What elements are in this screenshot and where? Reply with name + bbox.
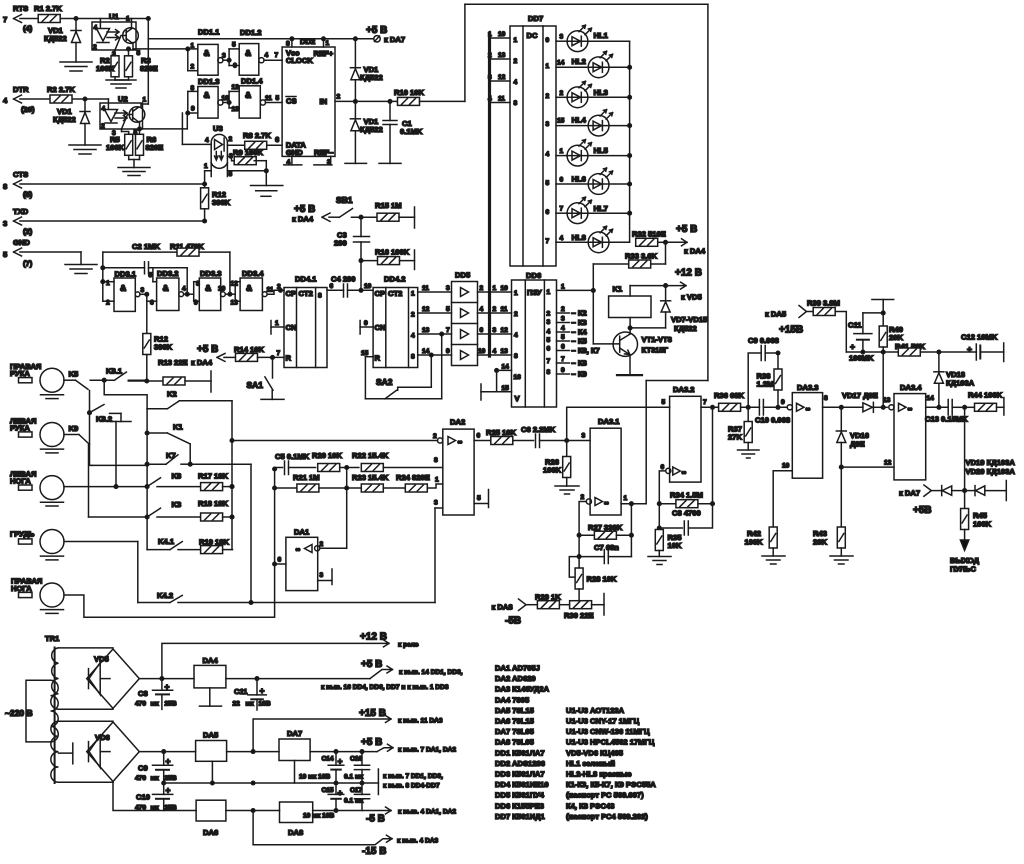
- svg-text:&: &: [120, 283, 126, 293]
- svg-text:4: 4: [514, 332, 518, 339]
- wire +5V logic rail: [226, 659, 463, 691]
- wire sensor5 to DA1 bus: [64, 467, 276, 617]
- svg-text:K2: K2: [167, 390, 177, 399]
- svg-text:DA3.3: DA3.3: [797, 383, 819, 392]
- svg-text:12: 12: [884, 460, 892, 467]
- svg-text:к DA4: к DA4: [292, 215, 314, 224]
- svg-text:к DA4: к DA4: [684, 247, 706, 256]
- resistor R15 1M: [375, 201, 415, 228]
- svg-text:КД103А: КД103А: [946, 379, 975, 388]
- gate DD3.1: [103, 270, 145, 312]
- svg-text:9: 9: [364, 320, 368, 327]
- wire DD2 IN row: [335, 94, 398, 104]
- op-amp DA2: [232, 418, 489, 603]
- ground (R37): [738, 450, 760, 458]
- IC DD2 ADC: [282, 37, 335, 166]
- svg-text:K8.2: K8.2: [96, 415, 112, 424]
- resistor R38 1.2M: [757, 353, 783, 407]
- svg-text:DA3.4: DA3.4: [900, 383, 922, 392]
- connector CTS pin 8: [3, 170, 33, 199]
- svg-text:6: 6: [560, 177, 564, 184]
- svg-text:DD6 К155РЕ3: DD6 К155РЕ3: [495, 801, 544, 810]
- svg-text:∞: ∞: [458, 439, 463, 446]
- svg-text:к DA7: к DA7: [899, 489, 920, 498]
- regulator DA5: [196, 731, 227, 784]
- LED HL1: [556, 25, 630, 51]
- svg-text:R18 18K: R18 18K: [198, 499, 228, 508]
- switch K7: [145, 451, 251, 603]
- svg-text:5: 5: [276, 95, 280, 102]
- svg-text:+5В: +5В: [913, 505, 932, 516]
- svg-text:DA2: DA2: [450, 418, 465, 427]
- svg-text:1: 1: [624, 495, 628, 502]
- optocoupler U3: [204, 124, 233, 178]
- svg-text:15: 15: [502, 385, 510, 392]
- wire 0V mid rail: [162, 769, 443, 795]
- svg-text:TR1: TR1: [45, 634, 60, 643]
- svg-text:DA3 К140УД2А: DA3 К140УД2А: [495, 685, 550, 694]
- svg-text:+: +: [850, 342, 855, 352]
- wire R40/R41 node row: [846, 350, 898, 409]
- svg-text:9: 9: [781, 399, 785, 406]
- resistor R21 1M: [275, 473, 362, 492]
- svg-text:РУКА: РУКА: [10, 424, 30, 433]
- svg-text:R: R: [286, 354, 292, 363]
- svg-text:2: 2: [101, 123, 105, 130]
- svg-text:25В: 25В: [165, 701, 177, 708]
- svg-text:VD19 КД103А: VD19 КД103А: [966, 458, 1016, 467]
- svg-text:DD7: DD7: [528, 14, 543, 23]
- svg-text:R2 2.7K: R2 2.7K: [47, 85, 75, 94]
- node +5V to DA4 (SB1): [292, 204, 330, 224]
- resistor R36 68K: [714, 391, 759, 411]
- gate DD3.4: [225, 269, 284, 310]
- svg-text:3: 3: [141, 287, 145, 294]
- svg-text:R9 100K: R9 100K: [233, 148, 263, 157]
- svg-text:HL2-HL8 красные: HL2-HL8 красные: [566, 770, 632, 779]
- svg-text:5: 5: [547, 337, 551, 344]
- svg-text:РУКА: РУКА: [10, 369, 30, 378]
- svg-text:C6 2.2MK: C6 2.2MK: [521, 425, 556, 434]
- svg-text:11: 11: [501, 306, 508, 313]
- svg-text:2: 2: [411, 312, 415, 319]
- switch K4.2: [138, 591, 435, 604]
- svg-text:к DA4: к DA4: [191, 358, 213, 367]
- svg-text:КД522: КД522: [360, 125, 383, 134]
- svg-text:10: 10: [498, 31, 506, 38]
- capacitor C10 0.068: [755, 400, 790, 425]
- wire U3 pin1 to CTS/R12: [203, 171, 211, 189]
- svg-text:+5 В: +5 В: [294, 204, 315, 215]
- svg-text:10 мк 10В: 10 мк 10В: [303, 813, 335, 820]
- IC DD7 decoder: [510, 14, 556, 266]
- svg-text:мк: мк: [246, 701, 255, 708]
- resistor R40 20K: [879, 325, 903, 352]
- LED HL7: [556, 197, 630, 223]
- svg-text:∞: ∞: [908, 406, 913, 413]
- capacitor C9 470mk 25V: [135, 752, 177, 783]
- svg-text:+: +: [166, 756, 171, 766]
- svg-text:КД522: КД522: [674, 324, 697, 333]
- resistor R32 510E: [632, 230, 667, 247]
- svg-text:К4, К8 РЭС43: К4, К8 РЭС43: [566, 801, 614, 810]
- wire DA3.1 pin2 feedback column: [577, 502, 586, 569]
- svg-text:CS: CS: [286, 97, 297, 106]
- node +12V к VD5: [630, 268, 702, 302]
- svg-text:– К4: – К4: [572, 328, 588, 337]
- svg-text:C9 0.068: C9 0.068: [748, 336, 779, 345]
- svg-text:(7): (7): [23, 259, 33, 268]
- svg-text:4: 4: [480, 306, 484, 313]
- svg-text:390K: 390K: [154, 343, 173, 352]
- svg-text:(20): (20): [21, 105, 35, 114]
- resistor R34 1.5M: [659, 407, 714, 507]
- svg-text:C11: C11: [848, 321, 862, 330]
- svg-text:– К5: – К5: [572, 337, 588, 346]
- svg-text:7: 7: [446, 327, 450, 334]
- svg-text:4: 4: [547, 329, 551, 336]
- svg-text:6: 6: [480, 327, 484, 334]
- svg-text:DA6 79L15: DA6 79L15: [495, 717, 535, 726]
- svg-text:-5В: -5В: [505, 616, 521, 627]
- svg-text:7: 7: [3, 15, 7, 24]
- svg-text:1: 1: [435, 477, 439, 484]
- svg-text:+: +: [166, 785, 171, 795]
- svg-text:1: 1: [546, 63, 550, 70]
- svg-text:DD7 К561ИД1: DD7 К561ИД1: [495, 812, 545, 821]
- switch SA1: [247, 357, 285, 399]
- diode VD20 KD103A: [965, 467, 1016, 501]
- ground (under VD1 DTR): [69, 145, 101, 154]
- capacitor C3 200: [334, 217, 370, 260]
- svg-text:5: 5: [232, 42, 236, 49]
- svg-text:+5 В: +5 В: [361, 659, 382, 670]
- svg-text:4: 4: [560, 235, 564, 242]
- svg-text:DD5 К561ПУ4: DD5 К561ПУ4: [495, 791, 545, 800]
- svg-text:&: &: [204, 48, 210, 58]
- svg-text:C11: C11: [234, 687, 248, 696]
- svg-text:1: 1: [411, 291, 415, 298]
- svg-text:11: 11: [265, 95, 272, 102]
- relay K1: [609, 285, 651, 335]
- diode VD1 KD522 (DTR clamp): [53, 99, 90, 145]
- svg-text:КД522: КД522: [360, 73, 383, 82]
- diode VD16 D9E: [836, 407, 869, 469]
- svg-text:к DA8: к DA8: [492, 603, 513, 612]
- svg-text:+5 В: +5 В: [676, 224, 697, 235]
- svg-text:RTS: RTS: [13, 4, 28, 13]
- capacitor C8 470mk 25V: [135, 679, 177, 710]
- svg-text:CN: CN: [286, 323, 297, 332]
- wire U3 emitter to ground: [227, 169, 268, 186]
- svg-text:2: 2: [561, 306, 565, 313]
- svg-text:3: 3: [446, 285, 450, 292]
- svg-text:K9: K9: [69, 424, 79, 433]
- regulator DA6: [196, 800, 226, 837]
- switch K3 + resistor R18 18K: [89, 499, 234, 521]
- connector DTR pin 4: [3, 85, 35, 114]
- svg-text:8: 8: [411, 354, 415, 361]
- diode VD7-VD15 KD522: [630, 286, 708, 333]
- svg-text:DA8 79L05: DA8 79L05: [495, 738, 535, 747]
- resistor R2 100K: [96, 50, 119, 80]
- capacitor C16 0.1mk: [344, 752, 370, 783]
- resistor R37 27K: [728, 407, 752, 450]
- LED HL5: [556, 140, 630, 166]
- capacitor C11 100MK: [848, 313, 874, 363]
- capacitor C11 22mk 16V: [233, 679, 271, 710]
- node +15 rail bar: [863, 300, 894, 327]
- svg-text:8: 8: [318, 293, 322, 300]
- svg-text:7: 7: [547, 358, 551, 365]
- wire DD3.1 input node: [101, 252, 105, 301]
- node -5V к DA8: [492, 599, 527, 627]
- svg-text:100K: 100K: [96, 64, 115, 73]
- svg-text:DD2: DD2: [300, 37, 315, 46]
- svg-text:(паспорт РС 569.607): (паспорт РС 569.607): [566, 791, 644, 800]
- svg-text:ПУЛЬС: ПУЛЬС: [950, 565, 976, 574]
- svg-text:VD5-VD6 КЦ405: VD5-VD6 КЦ405: [566, 748, 624, 757]
- svg-text:VD7-VD15: VD7-VD15: [671, 315, 708, 324]
- svg-text:K4.1: K4.1: [158, 537, 175, 546]
- svg-text:4: 4: [493, 348, 497, 355]
- optocoupler U1: [92, 12, 141, 58]
- svg-text:DD6: DD6: [526, 271, 541, 280]
- resistor R33 3.6K: [593, 242, 665, 268]
- svg-text:100K: 100K: [745, 538, 764, 547]
- wire RTS row: [20, 17, 148, 21]
- svg-text:R17 18K: R17 18K: [198, 472, 228, 481]
- svg-text:к DA5: к DA5: [765, 310, 787, 319]
- resistor R2 2.7K (DTR): [47, 85, 75, 103]
- svg-text:DD1.3: DD1.3: [198, 77, 220, 86]
- svg-text:1: 1: [547, 289, 551, 296]
- svg-text:3: 3: [320, 572, 324, 579]
- resistor R8 2.7K: [227, 131, 282, 149]
- svg-text:4: 4: [546, 151, 550, 158]
- svg-text:∞: ∞: [296, 547, 301, 554]
- svg-text:7: 7: [546, 238, 550, 245]
- capacitor C8 4700: [658, 504, 713, 535]
- svg-text:U1-U3 HPCL4562 17МГЦ: U1-U3 HPCL4562 17МГЦ: [566, 738, 655, 747]
- svg-text:9: 9: [446, 348, 450, 355]
- svg-text:1: 1: [561, 284, 565, 291]
- svg-text:HL1 зеленый: HL1 зеленый: [566, 759, 615, 768]
- wire GND row: [20, 252, 81, 265]
- svg-text:1: 1: [514, 290, 518, 297]
- node +5V к DA7: [366, 25, 405, 44]
- svg-text:C16: C16: [350, 756, 362, 763]
- node +5V к DA4 (LED supply): [666, 224, 706, 256]
- svg-text:SA2: SA2: [376, 377, 393, 387]
- resistor R1 2.7K: [34, 4, 62, 23]
- svg-text:11: 11: [498, 96, 505, 103]
- svg-text:R: R: [375, 354, 381, 363]
- wires DD6 outputs K2-K9: [557, 306, 600, 379]
- ground (R35): [648, 557, 671, 565]
- svg-text:1: 1: [493, 285, 497, 292]
- connector RTS pin 7: [3, 4, 33, 33]
- svg-text:VT1-VT8: VT1-VT8: [642, 335, 672, 344]
- svg-text:– К9: – К9: [572, 370, 587, 379]
- svg-text:5: 5: [229, 171, 233, 178]
- resistor R29 1K: [526, 593, 570, 609]
- svg-text:4: 4: [182, 286, 186, 293]
- svg-text:2: 2: [320, 541, 324, 548]
- op-amp DA3.3: [773, 383, 863, 527]
- svg-text:DA2 AD620: DA2 AD620: [495, 674, 536, 683]
- op-amp DA1: [275, 468, 347, 591]
- connector GND pin 5: [3, 238, 33, 268]
- svg-text:2: 2: [480, 285, 484, 292]
- ground (R42): [762, 556, 785, 564]
- svg-text:6: 6: [547, 346, 551, 353]
- svg-text:DA5: DA5: [203, 731, 219, 740]
- capacitor C9 0.068: [748, 336, 780, 407]
- optocoupler U2: [100, 95, 147, 138]
- svg-text:20K: 20K: [813, 538, 827, 547]
- svg-text:13: 13: [498, 52, 506, 59]
- svg-text:11: 11: [422, 285, 429, 292]
- svg-text:C9: C9: [138, 764, 148, 773]
- svg-text:– К6, К7: – К6, К7: [572, 346, 600, 355]
- svg-text:6: 6: [546, 209, 550, 216]
- svg-text:CTS: CTS: [13, 170, 28, 179]
- wire left column bus: [145, 409, 149, 550]
- svg-text:7: 7: [277, 350, 281, 357]
- wire -15 input rail: [113, 782, 280, 813]
- svg-text:Д9Е: Д9Е: [850, 440, 865, 449]
- svg-text:HL7: HL7: [594, 204, 608, 213]
- svg-text:мк: мк: [151, 701, 160, 708]
- LED HL8: [556, 226, 630, 252]
- wire U1/U2 collector riser: [141, 19, 148, 108]
- svg-text:DD2 ADS1286: DD2 ADS1286: [495, 759, 545, 768]
- svg-text:4: 4: [3, 96, 8, 105]
- wire DA3.3 out to DA3.4 pin12: [841, 460, 894, 468]
- svg-text:U1-U3 CNW-136 11МГЦ: U1-U3 CNW-136 11МГЦ: [566, 727, 650, 736]
- svg-text:DA4 7805: DA4 7805: [495, 695, 530, 704]
- svg-text:11: 11: [267, 287, 274, 294]
- svg-text:K1: K1: [613, 285, 623, 294]
- svg-text:2: 2: [581, 494, 585, 501]
- svg-text:R21 1M: R21 1M: [293, 473, 320, 482]
- wire TXD row: [20, 220, 205, 222]
- svg-text:CP: CP: [375, 289, 386, 298]
- diode VD19 KD103A: [942, 458, 1016, 496]
- wire -5V rail: [313, 807, 457, 825]
- svg-text:U1: U1: [109, 12, 119, 21]
- regulator DA8: [280, 802, 338, 837]
- svg-text:5: 5: [137, 50, 141, 57]
- svg-text:4: 4: [411, 333, 415, 340]
- switch K4.1 + resistor R19 18K: [147, 537, 232, 554]
- wires DD7 input rows from bus: [488, 31, 510, 103]
- svg-text:8: 8: [514, 100, 518, 107]
- svg-text:VD17 Д9Е: VD17 Д9Е: [842, 391, 878, 400]
- gate DD1.4: [227, 77, 282, 118]
- svg-text:12: 12: [498, 74, 506, 81]
- svg-text:R1 2.7K: R1 2.7K: [34, 4, 62, 13]
- svg-text:5: 5: [3, 250, 8, 259]
- svg-text:2: 2: [93, 44, 97, 51]
- gate DD1.1: [186, 28, 229, 76]
- resistor R28 10K: [575, 568, 617, 601]
- svg-text:13: 13: [501, 348, 509, 355]
- svg-text:7: 7: [703, 399, 707, 406]
- svg-text:6: 6: [330, 283, 334, 290]
- svg-text:U2: U2: [118, 95, 128, 104]
- svg-text:100K: 100K: [106, 143, 125, 152]
- ground (GND pin): [65, 265, 97, 274]
- svg-text:U1-U3 АОТ123А: U1-U3 АОТ123А: [566, 706, 625, 715]
- svg-text:470: 470: [135, 701, 146, 708]
- switch K8.2: [88, 405, 131, 489]
- svg-text:REF+: REF+: [314, 49, 334, 58]
- svg-text:R28 10K: R28 10K: [587, 575, 617, 584]
- svg-text:-15 В: -15 В: [362, 846, 386, 857]
- resistor R27 330K: [579, 523, 633, 539]
- svg-text:0.1 мк: 0.1 мк: [344, 798, 364, 805]
- wire C3/R16 column to DD4.2 CP: [360, 261, 362, 291]
- svg-text:1: 1: [560, 148, 564, 155]
- svg-text:R16 100K: R16 100K: [375, 248, 410, 257]
- svg-text:25В: 25В: [165, 775, 177, 782]
- svg-text:к VD5: к VD5: [681, 293, 702, 302]
- svg-text:(паспорт РС4 569.202): (паспорт РС4 569.202): [566, 812, 648, 821]
- svg-text:8: 8: [286, 41, 290, 48]
- svg-text:DD5: DD5: [455, 271, 471, 280]
- svg-text:+5 В: +5 В: [361, 737, 382, 748]
- IC DD4.1 counter: [271, 275, 327, 368]
- svg-text:27K: 27K: [728, 433, 742, 442]
- resistor R5 100K: [106, 129, 133, 160]
- capacitor C4 200: [327, 275, 373, 298]
- svg-text:1: 1: [204, 163, 208, 170]
- svg-text:DD4.1: DD4.1: [295, 275, 317, 284]
- svg-text:&: &: [205, 283, 211, 293]
- resistor R30 22E: [564, 594, 604, 621]
- capacitor C7 68n: [579, 504, 631, 564]
- wire U1 out row to DD1.1: [127, 47, 188, 51]
- svg-text:14: 14: [927, 395, 935, 402]
- svg-text:10: 10: [218, 286, 226, 293]
- svg-text:&: &: [204, 90, 210, 100]
- svg-text:3: 3: [546, 121, 550, 128]
- svg-text:DTR: DTR: [13, 85, 29, 94]
- op-amp DA3.2: [567, 385, 719, 506]
- svg-text:DD3.4: DD3.4: [242, 269, 264, 278]
- svg-text:2: 2: [560, 90, 564, 97]
- LED HL4: [556, 110, 630, 136]
- svg-text:DA3.2: DA3.2: [673, 385, 695, 394]
- wires DD4.2 outputs to DD5: [418, 285, 452, 357]
- svg-text:КД522: КД522: [53, 115, 76, 124]
- regulator DA7: [279, 729, 310, 783]
- svg-text:DD3.3: DD3.3: [200, 269, 222, 278]
- wire DD6 pin1 to transistor base: [557, 264, 620, 344]
- resistor R23 15.4K: [352, 473, 405, 492]
- svg-text:R10 10K: R10 10K: [394, 88, 424, 97]
- svg-text:4: 4: [514, 79, 518, 86]
- svg-text:КТ315Г: КТ315Г: [642, 346, 669, 355]
- svg-text:R39 3.9M: R39 3.9M: [807, 299, 840, 308]
- resistor R41 56K: [895, 342, 941, 356]
- ground (U3): [251, 186, 283, 197]
- svg-text:13: 13: [422, 327, 430, 334]
- svg-text:&: &: [163, 283, 169, 293]
- svg-text:10K: 10K: [668, 541, 682, 550]
